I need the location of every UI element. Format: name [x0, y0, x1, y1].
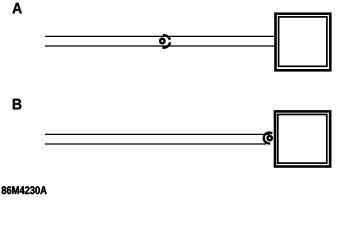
component box (view A) outer border [276, 14, 331, 71]
grommet ring (view B) [268, 136, 272, 140]
wire (view A upper line) [45, 35, 275, 37]
component box (view B) outer border [275, 111, 330, 166]
wire (view A lower line) [45, 45, 275, 47]
clamp symbol (view A) : C-arc open left [160, 35, 170, 47]
view label B [13, 99, 22, 110]
drawing number 86M4230A [2, 186, 47, 194]
grommet ring (view A) [160, 39, 165, 44]
component box (view A) inner border [279, 17, 327, 66]
component box (view B) inner border [278, 114, 327, 163]
view label A [13, 3, 22, 14]
wire (view B lower line) [45, 143, 266, 145]
clamp symbol (view B) : C-arc open right [264, 133, 273, 144]
wire (view B upper line) [45, 133, 270, 135]
